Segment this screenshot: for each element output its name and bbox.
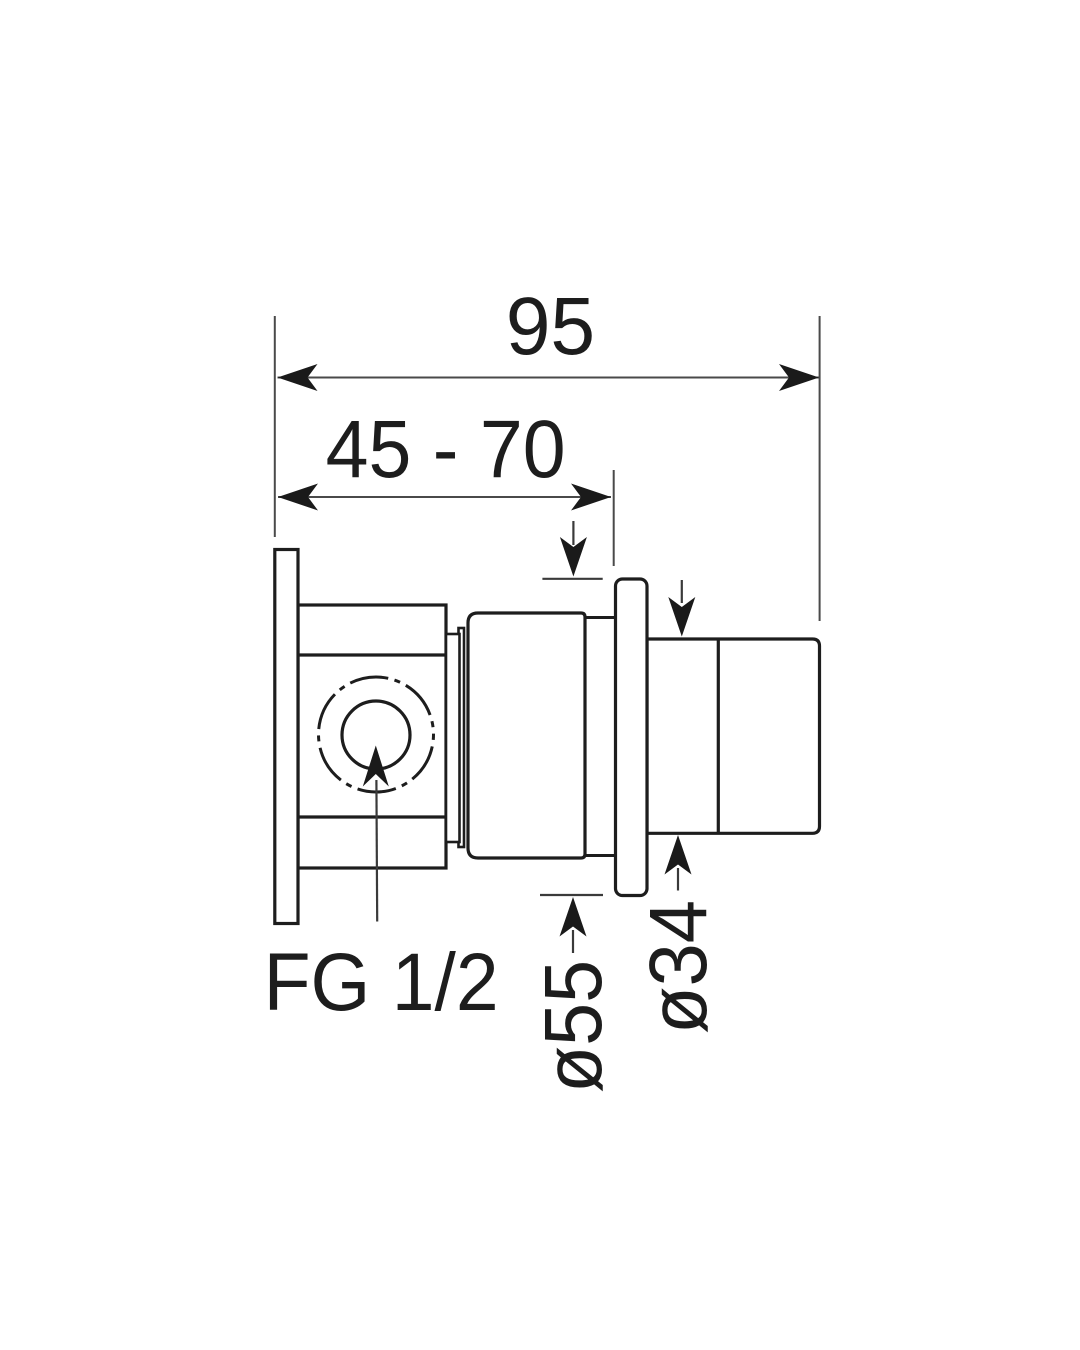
ø34 upper arrow shaft [681, 580, 683, 603]
neck ring between cartridge and escutcheon [570, 618, 616, 856]
arrowhead 45-70 right [571, 484, 611, 511]
arrowhead 95 right [779, 364, 819, 391]
port dashed circle [319, 677, 434, 792]
extension line right 95 [819, 316, 821, 621]
dimension line 45-70 [278, 496, 611, 498]
FG leader arrowhead [363, 746, 389, 787]
ø55 upper arrowhead [560, 537, 587, 577]
ø55 upper witness line [542, 578, 602, 580]
ø55 lower arrow shaft [572, 930, 574, 953]
port inner circle [342, 701, 410, 769]
arrowhead 45-70 left [278, 484, 318, 511]
handle divider line [717, 639, 720, 833]
extension line right 45-70 [613, 470, 615, 566]
svg-text:FG 1/2: FG 1/2 [264, 937, 499, 1028]
ø55 lower arrowhead [560, 897, 587, 937]
handle [647, 639, 820, 833]
svg-text:45 - 70: 45 - 70 [326, 404, 566, 495]
dimension line 95 [278, 377, 820, 379]
washer A (inner step disc) [446, 634, 460, 842]
arrowhead 95 left [278, 364, 318, 391]
escutcheon flange [616, 579, 648, 896]
svg-text:95: 95 [506, 281, 596, 372]
ø55 upper arrow shaft [572, 521, 574, 545]
ø34 upper arrowhead [668, 597, 695, 637]
ø34 lower arrowhead [665, 835, 692, 875]
wall mounting plate [275, 550, 298, 924]
ø55 lower witness line [540, 894, 603, 896]
valve body [298, 605, 446, 868]
svg-text:ø55: ø55 [528, 960, 619, 1093]
ø34 lower arrow shaft [677, 868, 679, 891]
FG leader arrow shaft [375, 780, 378, 922]
svg-text:ø34: ø34 [633, 900, 724, 1034]
extension line left [274, 316, 276, 537]
washer B (outer thin disc) [459, 628, 465, 847]
cartridge [468, 613, 585, 858]
